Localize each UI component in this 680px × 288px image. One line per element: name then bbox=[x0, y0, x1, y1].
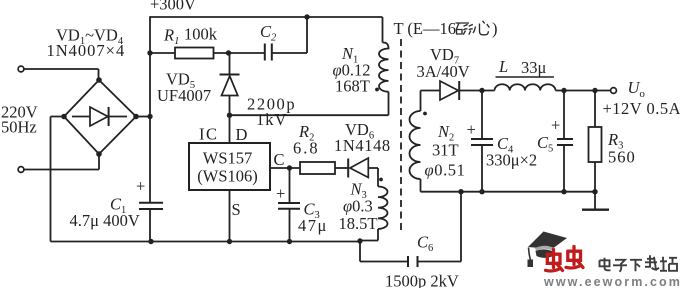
svg-text:4.7μ 400V: 4.7μ 400V bbox=[70, 211, 140, 230]
node junction dot S on bottom rail bbox=[227, 239, 232, 244]
svg-text:47μ: 47μ bbox=[298, 216, 328, 235]
svg-text:1kV: 1kV bbox=[256, 110, 287, 129]
wire bottom rail primary bbox=[51, 241, 361, 243]
svg-text:WS157: WS157 bbox=[203, 149, 253, 168]
svg-text:33μ: 33μ bbox=[521, 58, 547, 77]
node junction dot R3 bottom bbox=[592, 189, 597, 194]
wire L to output bbox=[556, 90, 611, 92]
winding N2 secondary bbox=[410, 91, 421, 192]
wire secondary bottom rail bbox=[421, 191, 596, 193]
node junction dot R1 tap bbox=[147, 50, 152, 55]
node junction dot C1 bottom rail bbox=[148, 239, 153, 244]
node junction dot C5 bottom bbox=[561, 189, 566, 194]
terminal input bottom bbox=[18, 167, 24, 173]
node junction dot rail/C2 bbox=[304, 14, 309, 19]
svg-text:+12V 0.5A: +12V 0.5A bbox=[603, 99, 680, 118]
svg-text:IC: IC bbox=[199, 125, 219, 144]
node phase dot N1 bbox=[375, 88, 379, 92]
svg-text:168T: 168T bbox=[335, 77, 370, 96]
capacitor C3 electrolytic bbox=[278, 168, 300, 242]
svg-text:560: 560 bbox=[608, 148, 636, 167]
svg-text:+: + bbox=[276, 184, 285, 203]
wire C6 branch left bbox=[360, 241, 408, 262]
watermark chongchong red logo bbox=[546, 247, 584, 271]
svg-text:1N4148: 1N4148 bbox=[334, 136, 391, 155]
watermark text dianzixiazaizhan hand-drawn bbox=[600, 255, 678, 271]
bridge rectifier VD1-VD4 diamond bbox=[64, 80, 136, 154]
svg-text:S: S bbox=[232, 200, 241, 219]
node junction dot C6 return bbox=[458, 189, 463, 194]
svg-text:330μ×2: 330μ×2 bbox=[486, 151, 537, 170]
inductor L bbox=[495, 84, 556, 90]
wire input top to bridge bbox=[24, 69, 99, 80]
svg-text:100k: 100k bbox=[184, 25, 218, 44]
svg-text:6.8: 6.8 bbox=[293, 139, 320, 158]
wire main vertical bus left bbox=[149, 16, 151, 241]
node junction dot bridge output bbox=[147, 114, 152, 119]
svg-text:3A/40V: 3A/40V bbox=[417, 62, 470, 81]
capacitor C2 bbox=[265, 44, 272, 61]
svg-text:31T: 31T bbox=[432, 141, 459, 160]
wire C6 to secondary return bbox=[418, 192, 462, 262]
svg-text:+: + bbox=[136, 177, 145, 196]
wire C2 to rail riser bbox=[272, 17, 307, 53]
node junction dot N3/C6 corner bbox=[357, 238, 362, 243]
diode VD7 bbox=[421, 81, 495, 100]
capacitor C5 electrolytic bbox=[557, 91, 573, 192]
capacitor C6 bbox=[408, 256, 418, 267]
svg-text:18.5T: 18.5T bbox=[339, 214, 378, 233]
ground bbox=[582, 209, 609, 211]
node junction dot C5 top bbox=[561, 88, 566, 93]
node bridge right vertex bbox=[133, 114, 139, 120]
node junction dot C3 bottom bbox=[287, 239, 292, 244]
node junction dot R1/C2/VD5 bbox=[226, 50, 231, 55]
resistor R1 bbox=[175, 48, 214, 59]
glyph xin (core) hand-drawn bbox=[473, 21, 489, 35]
node phase dot N3 bbox=[379, 178, 383, 182]
svg-text:L: L bbox=[498, 57, 508, 76]
resistor R2 bbox=[300, 162, 335, 174]
winding N3 feedback bbox=[360, 168, 388, 241]
svg-text:φ0.3: φ0.3 bbox=[343, 197, 373, 216]
svg-text:(WS106): (WS106) bbox=[197, 167, 258, 186]
wire R2 to VD6 bbox=[335, 167, 348, 169]
svg-text:50Hz: 50Hz bbox=[1, 118, 37, 137]
node junction dot C4 bottom bbox=[479, 189, 484, 194]
node junction dot C4 top bbox=[479, 88, 484, 93]
svg-text:C: C bbox=[274, 150, 285, 169]
node bridge top vertex bbox=[96, 77, 102, 83]
wire drain node to N1 bottom bbox=[230, 114, 389, 116]
wire bridge right vertex to bus bbox=[136, 116, 150, 118]
node bridge bottom vertex bbox=[96, 151, 102, 157]
node phase dot N2 bbox=[423, 112, 427, 116]
svg-text:UF4007: UF4007 bbox=[157, 86, 211, 105]
resistor R3 bbox=[589, 91, 602, 210]
diode symbol inside bridge bbox=[72, 107, 127, 126]
node junction dot C pin / C3 bbox=[287, 165, 292, 170]
IC U1 WS157 box bbox=[189, 143, 270, 190]
svg-text:1N4007×4: 1N4007×4 bbox=[47, 41, 126, 60]
winding N1 primary bbox=[379, 17, 389, 115]
diode VD5 bbox=[220, 53, 240, 115]
node bridge left vertex bbox=[61, 114, 67, 120]
wire top +300V rail bbox=[150, 16, 383, 18]
svg-text:T (E—16: T (E—16 bbox=[394, 19, 456, 38]
terminal input top bbox=[18, 66, 24, 72]
glyph ci (magnet) hand-drawn bbox=[456, 21, 490, 35]
svg-text:+: + bbox=[551, 116, 560, 135]
svg-text:D: D bbox=[236, 125, 248, 144]
watermark graduation cap bbox=[528, 232, 568, 268]
pin C lead and label bbox=[270, 167, 300, 169]
pin S lead and label bbox=[229, 190, 231, 242]
svg-text:+: + bbox=[467, 120, 476, 139]
svg-text:www.eeworm.com: www.eeworm.com bbox=[543, 275, 680, 288]
svg-text:φ0.51: φ0.51 bbox=[425, 161, 466, 180]
wire R1 to VD5 node bbox=[214, 52, 265, 54]
node junction dot drain D bbox=[227, 113, 232, 118]
svg-text:+300V: +300V bbox=[150, 0, 196, 14]
terminal output Uo bbox=[611, 88, 617, 94]
node junction dot R3 top bbox=[592, 88, 597, 93]
svg-text:): ) bbox=[492, 19, 498, 38]
wire bridge left vertex to bottom rail bbox=[51, 117, 65, 242]
diode VD6 bbox=[348, 158, 378, 178]
transformer core dashed line bbox=[400, 39, 402, 230]
capacitor C1 electrolytic bbox=[139, 203, 163, 209]
wire input bottom to bridge bbox=[24, 154, 99, 170]
capacitor C4 electrolytic bbox=[471, 91, 493, 192]
wire R1 left lead bbox=[150, 52, 175, 54]
svg-text:1500p 2kV: 1500p 2kV bbox=[385, 272, 459, 288]
pin D lead and label bbox=[229, 115, 231, 143]
